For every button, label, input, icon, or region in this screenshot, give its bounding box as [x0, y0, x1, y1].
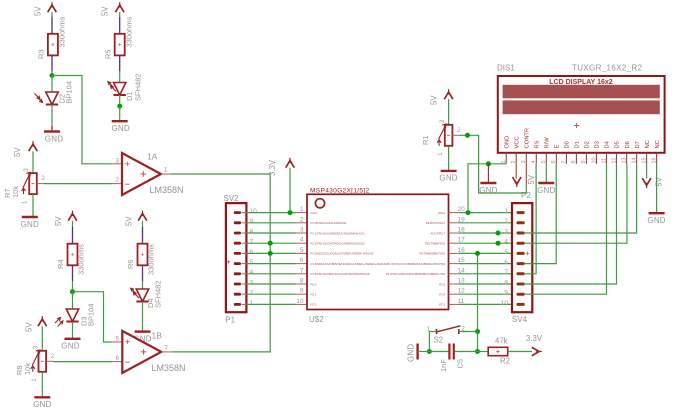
svg-text:GND: GND [61, 342, 79, 351]
power 5V supply for R1 [430, 89, 453, 105]
svg-text:R4: R4 [56, 259, 65, 269]
svg-text:SFH482: SFH482 [134, 73, 143, 101]
svg-text:GND: GND [21, 220, 39, 229]
wire LCD R/W pin 5 to ground [545, 164, 547, 183]
svg-text:330ohms: 330ohms [125, 16, 134, 47]
switch S2 [427, 326, 466, 345]
svg-text:GND: GND [537, 186, 555, 195]
svg-text:8: 8 [300, 278, 304, 285]
wire pin 6 stub op-amp 1B [112, 361, 122, 363]
svg-text:10: 10 [591, 157, 597, 163]
wire 5V to R1 pin 3 [448, 99, 450, 125]
wire junction to ground symbol [487, 164, 489, 183]
wire LCD VCC pin to 5V arrow [515, 164, 517, 179]
wire pin 4 stub of U$2 [296, 242, 307, 244]
wire U$2 pin 18 to SV4 pin 3 [459, 232, 517, 234]
svg-text:9: 9 [300, 288, 304, 295]
svg-text:XOUT/P2.7: XOUT/P2.7 [431, 231, 446, 235]
svg-text:1A: 1A [147, 152, 158, 162]
wire 3.3V to DVcc row [289, 168, 291, 213]
svg-text:5V: 5V [527, 174, 536, 184]
svg-text:R2: R2 [500, 357, 510, 366]
wire U$2 pin 17 to SV4 pin 4 [459, 242, 517, 244]
svg-text:2: 2 [300, 216, 304, 223]
svg-text:DVss: DVss [438, 211, 445, 215]
svg-text:9: 9 [504, 290, 508, 297]
svg-text:7: 7 [300, 267, 304, 274]
svg-text:CONTR: CONTR [525, 128, 531, 149]
svg-text:RS: RS [535, 140, 541, 148]
svg-text:SFH482: SFH482 [154, 280, 163, 308]
svg-text:D6: D6 [625, 141, 631, 148]
svg-text:R5: R5 [104, 49, 113, 59]
wire R2 to 3.3V arrow [508, 351, 532, 353]
svg-text:330ohms: 330ohms [77, 244, 86, 275]
wire pin 8 stub of U$2 [296, 283, 307, 285]
wire DVss to LCD GND pin 1 [468, 164, 506, 213]
wire R5 to D1 anode [119, 71, 121, 83]
svg-text:7: 7 [504, 269, 508, 276]
wire pin 1 stub of U$2 [296, 212, 307, 214]
resistor R5 [115, 34, 125, 56]
wire SV2 pin 5 to U$2 pin 6 [246, 263, 296, 265]
wire SV2 pin 7 to U$2 pin 4 [246, 242, 296, 244]
wire D1 cathode to node [119, 95, 121, 106]
svg-text:DVcc: DVcc [311, 211, 318, 215]
wire SV2 pin 2 to U$2 pin 9 [246, 293, 296, 295]
svg-text:NC: NC [645, 140, 651, 148]
svg-text:LM358N: LM358N [152, 363, 186, 373]
wire pin 2 stub of R8 [46, 360, 53, 362]
svg-text:9: 9 [250, 218, 254, 225]
wire overlap segment below R3 [51, 55, 53, 71]
svg-text:6: 6 [250, 249, 254, 256]
wire U$2 pin 14 to SV4 pin 7 [459, 273, 517, 275]
wire overlap segment above R3 [51, 17, 53, 34]
wire LCD E pin 6 to SV4 pin 6 [525, 164, 557, 264]
svg-text:E: E [555, 145, 561, 149]
svg-text:330ohms: 330ohms [58, 16, 67, 47]
power 3.3V supply at U$2 DVcc [268, 158, 294, 176]
wire pin 11 stub of U$2 [449, 303, 459, 305]
resistor R4 [68, 244, 78, 266]
potentiometer R7 [0, 0, 46, 204]
wire U$2 pin 11 to SV4 pin 10 [459, 303, 517, 305]
node junction row pin 18 [496, 231, 501, 236]
potentiometer R8 [0, 0, 55, 382]
svg-text:SV4: SV4 [512, 315, 528, 324]
photodiode D3 BP104 [55, 309, 79, 327]
ground GND under R1 [439, 171, 457, 183]
node junction DVss row [466, 210, 471, 215]
svg-text:GND: GND [33, 400, 51, 409]
wire CONTR pin red segment [525, 164, 527, 184]
wire LCD D7 pin 14 to SV4 pin 3 [525, 164, 637, 233]
wire SV2 pin 3 to U$2 pin 8 [246, 283, 296, 285]
svg-text:3.3V: 3.3V [526, 334, 543, 343]
wire SV2 pad row 5 stub [242, 263, 247, 265]
wire SV2 pad row 7 stub [242, 242, 247, 244]
wire 5V to R4 upper [72, 221, 74, 227]
wire U$2 pin 20 to SV4 pin 1 [459, 212, 517, 214]
wire 5V to R8 pin 3 [41, 326, 43, 350]
svg-text:P1.6/TA0.1/A6/CA6/UCB0SOMI/UCB: P1.6/TA0.1/A6/CA6/UCB0SOMI/UCB0SCL/TDI [386, 272, 445, 276]
svg-text:NC: NC [655, 140, 661, 148]
svg-text:P1: P1 [225, 316, 235, 325]
wire pin 19 stub of U$2 [449, 222, 459, 224]
wire SV2 pad row 4 stub [242, 273, 247, 275]
svg-text:4: 4 [504, 239, 508, 246]
wire overlap segment above R6 [142, 227, 144, 244]
node junction R1 wiper [465, 133, 470, 138]
svg-text:R1: R1 [421, 135, 430, 145]
node junction op-amp 1B output to U$2 pin 5 [268, 251, 273, 256]
wire 5V to R6 upper [142, 221, 144, 227]
svg-text:3.3V: 3.3V [268, 159, 277, 176]
connector SV2 (P1) [224, 194, 258, 325]
svg-text:10: 10 [501, 300, 509, 307]
svg-text:D7: D7 [635, 141, 641, 148]
wire U$2 pin 16 to SV4 pin 5 [459, 252, 517, 254]
wire D3 cathode to ground [72, 322, 74, 339]
wire S2 pin 2 to RST net [459, 331, 478, 333]
svg-text:P2.3: P2.3 [439, 303, 445, 307]
svg-text:U$2: U$2 [309, 315, 324, 324]
wire R1 wiper to LCD CONTR pin 3 [468, 135, 527, 193]
svg-text:BP104: BP104 [65, 81, 74, 104]
wire D4 cathode to ground [142, 302, 144, 332]
node junction D1-GND [117, 104, 122, 109]
wire SV2 pad row 10 stub [242, 212, 247, 214]
svg-text:5V: 5V [54, 216, 63, 226]
svg-text:5: 5 [300, 247, 304, 254]
svg-text:5V: 5V [125, 216, 134, 226]
svg-text:P1.1/TA0.0/UCA0RXD/UCA0SOMI/A1: P1.1/TA0.0/UCA0RXD/UCA0SOMI/A1/CA1 [311, 231, 366, 235]
svg-text:LM358N: LM358N [150, 185, 184, 195]
svg-text:7: 7 [250, 239, 254, 246]
node junction S2 C5 ground [427, 349, 432, 354]
svg-text:47k: 47k [495, 337, 508, 346]
power 3.3V supply at R2 [526, 334, 543, 356]
wire LCD pin 15 to 5V arrow [646, 164, 648, 179]
wire SV2 pad row 9 stub [242, 222, 247, 224]
wire R6 to D4 anode [142, 281, 144, 289]
node junction LCD ground net [486, 161, 491, 166]
svg-text:9: 9 [581, 160, 587, 163]
op-amp U1B LM358N [122, 331, 161, 373]
wire pin 6 stub of U$2 [296, 263, 307, 265]
wire pin 2 stub op-amp 1A [112, 183, 122, 185]
svg-text:10k: 10k [11, 186, 20, 198]
svg-text:P2.5: P2.5 [439, 282, 445, 286]
wire overlap segment below R5 [119, 55, 121, 71]
svg-text:4: 4 [531, 160, 537, 163]
svg-text:P1.5/TA0.0/UCB0CLK/UCA0STE/TMS: P1.5/TA0.0/UCB0CLK/UCA0STE/TMS/A5/CA5 [311, 272, 370, 276]
svg-text:P1.4/SMCLK/UCB0STE/UCA0CLK/VRE: P1.4/SMCLK/UCB0STE/UCA0CLK/VREF+/VEREF+/… [311, 262, 388, 266]
wire RST node to R2 [478, 351, 489, 353]
svg-text:1: 1 [501, 160, 507, 163]
wire 5V to R7 pin 3 [32, 151, 34, 173]
svg-text:P2.4: P2.4 [439, 293, 445, 297]
svg-text:XIN/P2.6/TA0.1: XIN/P2.6/TA0.1 [426, 221, 446, 225]
svg-text:5: 5 [250, 259, 254, 266]
wire LCD D6 pin 13 to SV4 pin 4 [525, 164, 627, 243]
svg-text:7: 7 [561, 160, 567, 163]
svg-text:GND: GND [407, 344, 416, 362]
svg-text:5V: 5V [430, 95, 439, 105]
svg-text:GND: GND [112, 124, 130, 133]
ground GND under D1 [112, 121, 130, 133]
svg-text:MSP430G2X[1/5]2: MSP430G2X[1/5]2 [310, 187, 370, 194]
node junction RST switch [475, 329, 480, 334]
wire SV2 pin 4 to U$2 pin 7 [246, 273, 296, 275]
wire D3 node to op-amp 1B non-inverting input [73, 292, 113, 342]
ground GND at LCD pin 1 [479, 183, 497, 195]
svg-text:RST/NMI/SBWTDIO: RST/NMI/SBWTDIO [419, 252, 445, 256]
power 5V supply for R4 [54, 211, 77, 226]
svg-text:16: 16 [651, 157, 657, 163]
node junction row pin 17 [496, 241, 501, 246]
svg-text:P1.2/TA0.1/UCA0TXD/UCA0SIMO/A2: P1.2/TA0.1/UCA0TXD/UCA0SIMO/A2/CA2 [311, 242, 365, 246]
wire node to ground [119, 106, 121, 121]
wire R7 wiper to op-amp inverting input [44, 183, 112, 185]
svg-text:P2.2: P2.2 [311, 303, 317, 307]
microcontroller U$2 MSP430G2X[1/5]2 [296, 187, 465, 324]
svg-text:6: 6 [300, 257, 304, 264]
wire LCD D5 pin 12 to SV4 pin 8 [525, 164, 617, 284]
svg-text:5V: 5V [13, 147, 22, 157]
wire SV2 pad row 3 stub [242, 283, 247, 285]
svg-text:TUXGR_16X2_R2: TUXGR_16X2_R2 [572, 64, 643, 73]
wire node to D3 anode [72, 292, 74, 309]
ground GND under R8 [33, 397, 51, 409]
svg-text:GND: GND [45, 134, 63, 143]
wire SV2 pin 6 to U$2 pin 5 [246, 252, 296, 254]
svg-text:10k: 10k [23, 363, 32, 375]
connector SV4 (P2) [501, 191, 533, 324]
wire SV2 pin 8 to U$2 pin 3 [246, 232, 296, 234]
ground GND at LCD pin 16 [647, 213, 665, 225]
photodiode D2 BP104 [35, 92, 59, 105]
wire overlap segment below R4 [72, 265, 74, 281]
svg-text:1: 1 [504, 208, 508, 215]
wire pin 2 stub of R7 [37, 183, 44, 185]
wire pin 1 stub op-amp 1A [161, 173, 171, 175]
wire pin 18 stub of U$2 [449, 232, 459, 234]
svg-text:5: 5 [504, 249, 508, 256]
node junction op-amp 1A output to U$2 pin 4 [268, 241, 273, 246]
svg-text:R6: R6 [126, 259, 135, 269]
wire pin 5 stub op-amp 1B [112, 341, 122, 343]
svg-text:D4: D4 [605, 140, 611, 148]
resistor R6 [138, 244, 148, 266]
svg-text:5V: 5V [34, 6, 43, 16]
wire pin 3 stub of U$2 [296, 232, 307, 234]
svg-text:VCC: VCC [514, 136, 520, 148]
wire RST net vertical to S2 and C5 [477, 253, 479, 351]
svg-text:SV2: SV2 [224, 194, 240, 203]
svg-text:6: 6 [551, 160, 557, 163]
svg-text:10: 10 [250, 208, 258, 215]
svg-text:8: 8 [250, 228, 254, 235]
power 5V supply for R6 [125, 211, 147, 226]
wire pin 14 stub of U$2 [449, 273, 459, 275]
wire R8 pin 1 to ground [41, 372, 43, 398]
wire R3 to node [51, 71, 53, 76]
wire overlap segment above R5 [119, 17, 121, 34]
svg-text:3: 3 [300, 227, 304, 234]
svg-text:R3: R3 [37, 49, 46, 59]
wire SV2 pin 10 to U$2 pin 1 [246, 212, 296, 214]
svg-text:2: 2 [511, 160, 517, 163]
svg-text:8: 8 [571, 160, 577, 163]
wire pin 3 stub op-amp 1A [112, 163, 122, 165]
wire R7 pin 1 to ground [32, 194, 34, 217]
svg-text:14: 14 [631, 157, 637, 163]
wire U$2 pin 13 to SV4 pin 8 [459, 283, 517, 285]
svg-text:3: 3 [521, 160, 527, 163]
wire op-amp outputs vertical bus to P1.2/P1.3 rows [171, 174, 270, 352]
wire R8 wiper to op-amp 1B inverting input [53, 361, 112, 363]
wire pin 15 stub of U$2 [449, 263, 459, 265]
svg-text:P2.0: P2.0 [311, 282, 317, 286]
capacitor C5 1nF [449, 344, 453, 360]
svg-text:4: 4 [250, 269, 254, 276]
svg-text:LCD DISPLAY 16x2: LCD DISPLAY 16x2 [549, 79, 613, 86]
wire U$2 pin 15 to SV4 pin 6 [459, 263, 517, 265]
svg-text:GND: GND [647, 216, 665, 225]
LED D4 SFH482 [131, 288, 149, 301]
wire pin 5 stub of U$2 [296, 252, 307, 254]
svg-text:DIS1: DIS1 [497, 64, 515, 73]
wire C5 right plate to RST node [455, 351, 478, 353]
resistor R2 47k [488, 347, 508, 355]
ground GND at LCD pin 5 [537, 183, 555, 195]
svg-text:2: 2 [504, 218, 508, 225]
svg-text:1: 1 [250, 300, 254, 307]
svg-text:6: 6 [504, 259, 508, 266]
potentiometer R1 [0, 0, 461, 156]
svg-text:330ohms: 330ohms [147, 244, 156, 275]
svg-text:R/W: R/W [545, 137, 551, 149]
power 5V supply at LCD VCC [513, 174, 537, 187]
svg-text:13: 13 [621, 157, 627, 163]
wire pin 17 stub of U$2 [449, 242, 459, 244]
wire ground to node [418, 351, 430, 353]
wire pin 20 stub of U$2 [449, 212, 459, 214]
wire SV2 pad row 8 stub [242, 232, 247, 234]
wire U$2 pin 12 to SV4 pin 9 [459, 293, 517, 295]
wire node to D2 anode [51, 76, 53, 93]
wire R1 pin 1 to ground [448, 146, 450, 171]
ground GND under D2 [44, 132, 63, 144]
wire pin 7 stub op-amp 1B [161, 351, 171, 353]
op-amp U1A LM358N [122, 153, 161, 195]
LCD display DIS1 TUXGR_16X2_R2 [497, 64, 665, 164]
svg-text:P1.3/ADC10CLK/CAOUT/VREF-/VERE: P1.3/ADC10CLK/CAOUT/VREF-/VEREF-/A3/CA3 [311, 252, 374, 256]
wire overlap segment above R4 [72, 227, 74, 244]
wire overlap segment below R6 [142, 265, 144, 281]
svg-text:GND: GND [504, 136, 510, 149]
power 5V supply for R5 [101, 2, 125, 16]
wire pin 13 stub of U$2 [449, 283, 459, 285]
node junction R4-D3 [70, 289, 75, 294]
wire SV2 pad row 2 stub [242, 293, 247, 295]
power 5V supply for R3 [34, 2, 57, 16]
svg-text:TEST/SBWTCK: TEST/SBWTCK [425, 242, 445, 246]
wire 5V to R3 upper [51, 12, 53, 17]
wire 5V to R5 upper [119, 12, 121, 17]
power 5V supply at LCD pin 15 [642, 176, 663, 188]
svg-text:12: 12 [611, 157, 617, 163]
svg-text:GND: GND [439, 174, 457, 183]
node junction RST RC [475, 349, 480, 354]
wire LCD RS pin 4 to SV4 pin 7 [525, 164, 536, 274]
ground GND under D4 [133, 332, 151, 344]
node junction 3.3V DVcc [288, 210, 293, 215]
svg-text:D2: D2 [585, 141, 591, 148]
svg-text:P1.7/A7/CA7/UCB0SIMO/UCB0SDA/T: P1.7/A7/CA7/UCB0SIMO/UCB0SDA/TDO/TDI [387, 262, 445, 266]
svg-text:1nF: 1nF [439, 359, 448, 372]
svg-text:11: 11 [601, 158, 607, 164]
LED D1 SFH482 [108, 82, 126, 95]
wire LCD D4 pin 11 to SV4 pin 9 [525, 164, 607, 294]
svg-text:1: 1 [300, 206, 304, 213]
svg-text:5V: 5V [101, 6, 110, 16]
wire pin 7 stub of U$2 [296, 273, 307, 275]
ground GND under R7 [21, 217, 39, 229]
node junction R3-D2 [50, 73, 55, 78]
wire D2 cathode to ground [51, 105, 53, 130]
ground GND under D3 [61, 339, 80, 351]
wire U$2 pin 19 to SV4 pin 2 [459, 222, 517, 224]
power 5V supply for R8 [25, 316, 47, 332]
svg-text:3: 3 [250, 279, 254, 286]
svg-text:P1.0/TA0CLK/ACLK/A0/CA0: P1.0/TA0CLK/ACLK/A0/CA0 [311, 221, 347, 225]
wire pin 2 stub of U$2 [296, 222, 307, 224]
wire pin stub at D2 ground [51, 126, 53, 132]
svg-text:8: 8 [504, 279, 508, 286]
svg-text:C5: C5 [456, 359, 465, 369]
svg-text:BP104: BP104 [87, 303, 96, 326]
svg-text:10: 10 [296, 298, 304, 305]
svg-text:D0: D0 [565, 141, 571, 148]
wire R1 wiper to node [460, 134, 468, 136]
wire D2 node to op-amp non-inverting input [52, 76, 112, 164]
power 5V supply for R7 [13, 141, 37, 157]
wire LCD pin 16 to ground [656, 164, 658, 213]
svg-text:D3: D3 [595, 141, 601, 148]
wire pin 16 stub of U$2 [449, 252, 459, 254]
svg-text:5V: 5V [25, 322, 34, 332]
svg-text:4: 4 [300, 237, 304, 244]
svg-text:5: 5 [541, 160, 547, 163]
wire SV2 pad row 1 stub [242, 303, 247, 305]
wire pin 2 stub of R1 [452, 134, 459, 136]
svg-text:P2.1: P2.1 [311, 293, 317, 297]
svg-text:3: 3 [504, 228, 508, 235]
svg-text:S2: S2 [434, 336, 444, 345]
wire node to C5 left plate [429, 351, 448, 353]
wire S2 pin 1 to ground node [429, 332, 436, 352]
resistor R3 [48, 34, 58, 56]
svg-text:1B: 1B [152, 331, 163, 341]
svg-text:D1: D1 [575, 141, 581, 148]
wire SV2 pad row 6 stub [242, 252, 247, 254]
wire pin 9 stub of U$2 [296, 293, 307, 295]
wire R4 to node [72, 281, 74, 292]
wire SV2 pin 9 to U$2 pin 2 [246, 222, 296, 224]
